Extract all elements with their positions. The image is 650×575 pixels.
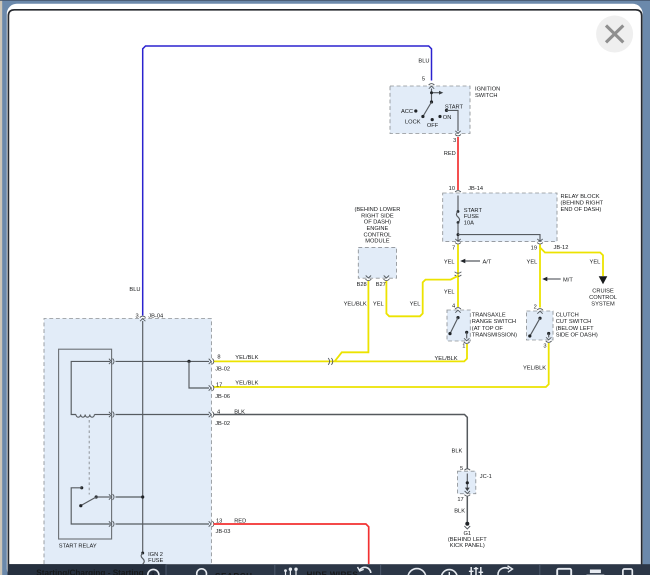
relay common contact and lever: [95, 495, 98, 498]
svg-text:START: START: [464, 208, 483, 214]
svg-text:IGNITION: IGNITION: [475, 86, 500, 92]
svg-text:(BELOW LEFT: (BELOW LEFT: [556, 326, 594, 332]
svg-text:1: 1: [462, 344, 465, 350]
svg-text:ENGINE: ENGINE: [366, 226, 388, 232]
transaxle pin 1 connector: [464, 338, 470, 343]
svg-text:YEL: YEL: [410, 302, 421, 308]
svg-text:10A: 10A: [464, 221, 474, 227]
svg-text:19: 19: [531, 245, 537, 251]
JC-1 pin 5: [464, 469, 470, 474]
JC-1 pin 17: [464, 491, 470, 496]
M/T arrow: [546, 278, 561, 280]
svg-text:YEL: YEL: [444, 289, 455, 295]
A/T arrow: [464, 260, 481, 262]
svg-text:BLU: BLU: [418, 58, 429, 64]
svg-text:A/T: A/T: [483, 259, 492, 265]
svg-text:M/T: M/T: [563, 277, 573, 283]
clutch pin 2 connector: [537, 309, 543, 314]
svg-text:JB-02: JB-02: [215, 367, 230, 373]
transaxle range switch box: [447, 310, 470, 341]
relay block pin 7: [455, 239, 461, 244]
svg-text:START: START: [445, 104, 464, 110]
svg-text:SIDE OF DASH): SIDE OF DASH): [556, 333, 598, 339]
fuse START FUSE 10A: [457, 196, 459, 211]
relay coil feed wire: [71, 361, 110, 414]
svg-text:RANGE SWITCH: RANGE SWITCH: [472, 319, 516, 325]
svg-text:CONTROL: CONTROL: [363, 232, 391, 238]
ground G1: [465, 522, 469, 526]
start relay outer box: [44, 319, 211, 565]
branch pin8 row down to pin 17: [189, 361, 209, 388]
relay coil: [76, 415, 94, 418]
svg-text:CLUTCH: CLUTCH: [556, 312, 579, 318]
svg-text:3: 3: [543, 343, 546, 349]
clutch cut switch box: [527, 311, 554, 340]
center vertical wire (ignition feed): [142, 321, 144, 553]
contact dots ACC LOCK OFF ON START: [414, 109, 417, 112]
svg-text:G1: G1: [464, 531, 472, 537]
svg-text:YEL: YEL: [444, 259, 455, 265]
svg-text:END OF DASH): END OF DASH): [561, 207, 602, 213]
wire RED ignition pin3 to relay block pin 10: [457, 137, 459, 190]
svg-text:JB-04: JB-04: [148, 314, 163, 320]
svg-text:(BEHIND RIGHT: (BEHIND RIGHT: [561, 200, 604, 206]
svg-text:RED: RED: [234, 519, 246, 525]
svg-text:FUSE: FUSE: [464, 214, 479, 220]
svg-text:10: 10: [449, 186, 455, 192]
wire YEL relay block pin19 to clutch cut switch pin 2: [539, 245, 541, 308]
wire YEL relay block pin19 branch to cruise control: [540, 245, 603, 277]
start relay inner box: [59, 349, 112, 539]
svg-text:BLU: BLU: [129, 287, 140, 293]
ignition switch box: [390, 86, 470, 134]
inner box edge connectors: [109, 359, 114, 365]
svg-text:8: 8: [217, 355, 220, 361]
svg-text:3: 3: [136, 313, 139, 319]
svg-text:BLK: BLK: [452, 448, 463, 454]
svg-text:(BEHIND LOWER: (BEHIND LOWER: [354, 207, 400, 213]
svg-text:ACC: ACC: [401, 109, 413, 115]
svg-text:JB-12: JB-12: [554, 245, 569, 251]
svg-text:RED: RED: [444, 151, 456, 157]
svg-text:RELAY BLOCK: RELAY BLOCK: [561, 194, 600, 200]
svg-text:TRANSMISSION): TRANSMISSION): [472, 333, 517, 339]
svg-text:2: 2: [534, 304, 537, 310]
svg-text:5: 5: [422, 76, 425, 82]
svg-text:SWITCH: SWITCH: [475, 93, 497, 99]
close button: [596, 16, 633, 53]
relay contact (upper) to pin13 row: [80, 486, 83, 489]
cruise control arrow: [599, 276, 608, 284]
start relay pin 8: [209, 359, 214, 365]
start relay pin 3 connector (top): [140, 316, 146, 321]
start relay pin 13: [209, 521, 214, 527]
svg-text:YEL/BLK: YEL/BLK: [344, 302, 367, 308]
svg-text:KICK PANEL): KICK PANEL): [450, 543, 485, 549]
svg-text:START RELAY: START RELAY: [59, 544, 97, 550]
svg-text:(BEHIND LEFT: (BEHIND LEFT: [448, 537, 487, 543]
svg-text:3: 3: [453, 138, 456, 144]
svg-text:ON: ON: [443, 115, 452, 121]
svg-text:(AT TOP OF: (AT TOP OF: [472, 326, 504, 332]
svg-text:SYSTEM: SYSTEM: [591, 302, 615, 308]
clutch internals: [538, 317, 541, 320]
start relay pin 4: [209, 412, 214, 418]
transaxle pin 4 connector: [455, 308, 461, 313]
inline connector on YEL wire: [455, 272, 462, 277]
svg-text:JB-02: JB-02: [215, 421, 230, 427]
svg-text:YEL: YEL: [373, 302, 384, 308]
svg-text:TRANSAXLE: TRANSAXLE: [472, 312, 506, 318]
wire YEL relay block pin7 to transaxle range switch pin 4: [457, 245, 459, 308]
engine control module box: [358, 247, 396, 278]
svg-text:4: 4: [452, 304, 455, 310]
wire from START contact to pin 3: [447, 110, 459, 131]
svg-text:BLK: BLK: [454, 508, 465, 514]
svg-text:YEL: YEL: [590, 260, 601, 266]
svg-text:BLK: BLK: [234, 410, 245, 416]
svg-text:HIDE WIRES: HIDE WIRES: [307, 571, 359, 575]
svg-text:YEL/BLK: YEL/BLK: [235, 355, 258, 361]
IGN 2 FUSE: [141, 552, 144, 555]
wire RED start relay pin 13 down: [214, 524, 369, 564]
relay block pin 10: [455, 191, 461, 196]
svg-text:OF DASH): OF DASH): [364, 220, 391, 226]
wire YEL/BLK ECM B28 down to junction: [335, 281, 369, 361]
wire BLK JC-1 to ground: [466, 497, 468, 523]
svg-text:i: i: [152, 571, 154, 575]
coil mechanical link (dashed): [88, 420, 90, 495]
wire YEL/BLK clutch pin 3 to start relay pin 17: [214, 343, 549, 387]
svg-text:OFF: OFF: [427, 123, 439, 129]
switch lever to LOCK: [423, 102, 432, 117]
svg-text:JC-1: JC-1: [480, 474, 492, 480]
ignition switch pin 3: [455, 131, 461, 136]
ignition switch internals: [431, 89, 433, 103]
relay block pin 19: [537, 239, 543, 244]
ECM pin B27: [384, 276, 390, 281]
svg-text:YEL: YEL: [527, 260, 538, 266]
svg-text:JB-03: JB-03: [216, 529, 231, 535]
svg-text:RIGHT SIDE: RIGHT SIDE: [361, 213, 394, 219]
wire YEL/BLK start relay pin 8 to transaxle range switch pin 1: [214, 344, 468, 361]
svg-text:CRUISE: CRUISE: [592, 288, 614, 294]
row wires from inner box to outer pins: [116, 360, 210, 362]
wire BLK start relay pin 4 to JC-1: [214, 415, 468, 469]
ECM pin B28: [366, 276, 372, 281]
svg-text:17: 17: [216, 382, 222, 388]
junction dots: [187, 360, 190, 363]
wire YEL ECM B27 to transaxle pin4 wire: [386, 276, 458, 316]
transaxle internals: [456, 316, 459, 319]
svg-text:B28: B28: [357, 282, 367, 288]
svg-text:CONTROL: CONTROL: [589, 295, 617, 301]
svg-text:IGN 2: IGN 2: [148, 552, 163, 558]
relay block box: [443, 193, 557, 242]
svg-text:YEL/BLK: YEL/BLK: [435, 356, 458, 362]
svg-text:YEL/BLK: YEL/BLK: [235, 381, 258, 387]
svg-text:7: 7: [452, 245, 455, 251]
svg-text:LOCK: LOCK: [405, 120, 421, 126]
svg-text:B27: B27: [376, 282, 386, 288]
inline connector: [328, 358, 333, 365]
svg-text:FUSE: FUSE: [148, 558, 163, 564]
svg-text:CUT SWITCH: CUT SWITCH: [556, 319, 592, 325]
svg-text:Starting/Charging - Starting: Starting/Charging - Starting: [36, 568, 143, 575]
svg-text:MODULE: MODULE: [365, 239, 390, 245]
junction and branch to pin 19: [457, 233, 460, 236]
start relay pin 17: [209, 385, 214, 391]
svg-text:YEL/BLK: YEL/BLK: [523, 365, 546, 371]
wire BLU from ignition switch pin 5 to start relay pin 3: [143, 46, 432, 316]
clutch pin 3 connector: [546, 337, 552, 342]
junction connector JC-1 box: [458, 471, 476, 494]
ignition switch pin 5: [429, 84, 435, 89]
svg-text:JB-14: JB-14: [468, 186, 483, 192]
svg-text:JB-06: JB-06: [215, 394, 230, 400]
svg-text:17: 17: [457, 497, 463, 503]
